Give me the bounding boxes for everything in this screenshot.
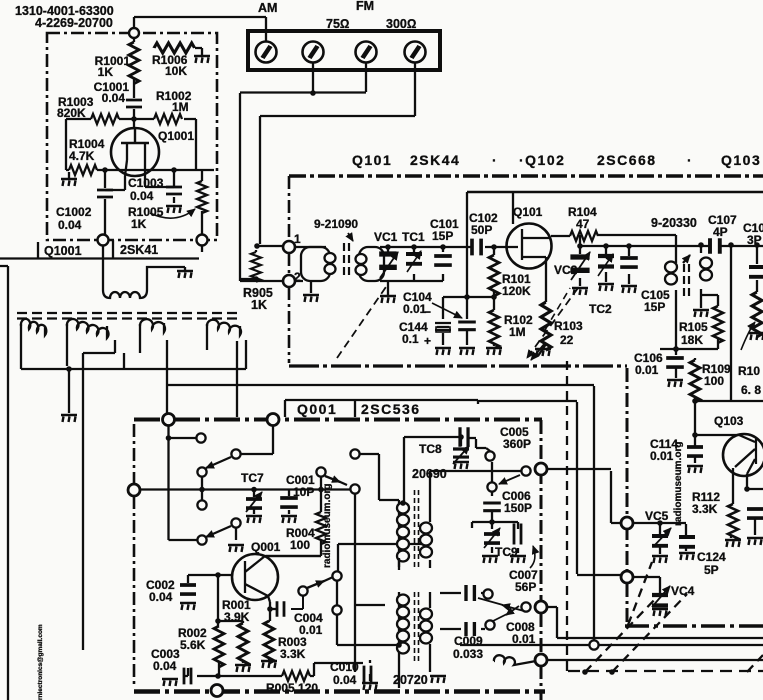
svg-text:47: 47 bbox=[576, 217, 590, 231]
svg-text:TC1: TC1 bbox=[402, 230, 425, 244]
svg-text:120K: 120K bbox=[502, 284, 531, 298]
svg-text:4P: 4P bbox=[713, 225, 728, 239]
svg-text:75Ω: 75Ω bbox=[326, 17, 350, 31]
svg-text:AM: AM bbox=[258, 1, 277, 15]
svg-text:0.04: 0.04 bbox=[130, 189, 154, 203]
svg-text:0.04: 0.04 bbox=[149, 590, 173, 604]
svg-text:1K: 1K bbox=[98, 65, 114, 79]
svg-text:Q103: Q103 bbox=[714, 414, 744, 428]
svg-text:0.04: 0.04 bbox=[333, 673, 357, 687]
svg-text:2SK41: 2SK41 bbox=[120, 243, 158, 257]
svg-text:TC9: TC9 bbox=[495, 545, 518, 559]
svg-text:1K: 1K bbox=[131, 217, 147, 231]
svg-text:1K: 1K bbox=[251, 298, 267, 312]
svg-text:·: · bbox=[492, 152, 498, 168]
svg-text:5.6K: 5.6K bbox=[180, 638, 206, 652]
svg-text:radiomuseum.org: radiomuseum.org bbox=[322, 484, 333, 568]
svg-text:100: 100 bbox=[290, 538, 310, 552]
svg-text:360P: 360P bbox=[503, 437, 531, 451]
svg-text:Q001: Q001 bbox=[297, 401, 337, 417]
svg-text:VC4: VC4 bbox=[671, 584, 695, 598]
svg-text:R103: R103 bbox=[554, 319, 583, 333]
svg-text:0.01: 0.01 bbox=[403, 302, 427, 316]
svg-text:C124: C124 bbox=[697, 550, 726, 564]
svg-text:R105: R105 bbox=[679, 320, 708, 334]
svg-text:0.01: 0.01 bbox=[650, 449, 674, 463]
svg-text:C1003: C1003 bbox=[128, 176, 164, 190]
svg-text:FM: FM bbox=[356, 0, 374, 13]
svg-text:4.7K: 4.7K bbox=[69, 149, 95, 163]
svg-text:0.033: 0.033 bbox=[453, 647, 483, 661]
svg-text:4-2269-20700: 4-2269-20700 bbox=[35, 16, 113, 30]
svg-text:VC5: VC5 bbox=[645, 509, 669, 523]
svg-text:1M: 1M bbox=[509, 325, 526, 339]
svg-text:TC7: TC7 bbox=[241, 471, 264, 485]
svg-text:50P: 50P bbox=[471, 223, 492, 237]
svg-text:0.04: 0.04 bbox=[153, 659, 177, 673]
svg-text:·Q102: ·Q102 bbox=[519, 152, 565, 168]
svg-text:2SK44: 2SK44 bbox=[410, 152, 460, 168]
svg-text:Q101: Q101 bbox=[352, 152, 392, 168]
svg-text:10K: 10K bbox=[165, 64, 187, 78]
svg-text:0.01: 0.01 bbox=[635, 363, 659, 377]
svg-text:9-21090: 9-21090 bbox=[314, 217, 358, 231]
svg-text:0.04: 0.04 bbox=[102, 91, 126, 105]
svg-text:0.1: 0.1 bbox=[402, 332, 419, 346]
svg-text:+: + bbox=[424, 334, 431, 348]
svg-text:rnlectronics@gmail.com: rnlectronics@gmail.com bbox=[37, 624, 44, 700]
svg-text:3.9K: 3.9K bbox=[224, 610, 250, 624]
svg-text:1M: 1M bbox=[172, 100, 189, 114]
svg-text:Q001: Q001 bbox=[251, 540, 281, 554]
svg-text:TC8: TC8 bbox=[419, 442, 442, 456]
svg-text:3P: 3P bbox=[747, 233, 762, 247]
svg-text:R10: R10 bbox=[738, 364, 760, 378]
svg-text:6. 8: 6. 8 bbox=[741, 383, 761, 397]
svg-text:15P: 15P bbox=[432, 229, 453, 243]
svg-text:2SC536: 2SC536 bbox=[361, 401, 421, 417]
svg-text:Q101: Q101 bbox=[513, 205, 543, 219]
svg-text:22: 22 bbox=[560, 333, 574, 347]
svg-text:100: 100 bbox=[704, 374, 724, 388]
svg-text:VC2: VC2 bbox=[554, 263, 578, 277]
svg-text:1: 1 bbox=[294, 232, 301, 246]
svg-text:10P: 10P bbox=[293, 485, 314, 499]
svg-text:2SC668: 2SC668 bbox=[597, 152, 657, 168]
svg-text:150P: 150P bbox=[504, 501, 532, 515]
svg-text:15P: 15P bbox=[644, 300, 665, 314]
svg-text:radiomuseum.org: radiomuseum.org bbox=[673, 442, 684, 526]
svg-text:0.04: 0.04 bbox=[58, 218, 82, 232]
svg-text:20720: 20720 bbox=[393, 673, 428, 687]
svg-text:C1002: C1002 bbox=[56, 205, 92, 219]
svg-text:3.3K: 3.3K bbox=[280, 647, 306, 661]
svg-text:Q1001: Q1001 bbox=[44, 244, 82, 258]
svg-text:20690: 20690 bbox=[412, 467, 447, 481]
svg-text:5P: 5P bbox=[704, 563, 719, 577]
svg-text:9-20330: 9-20330 bbox=[651, 216, 697, 230]
svg-text:3.3K: 3.3K bbox=[692, 502, 718, 516]
svg-text:TC2: TC2 bbox=[589, 302, 612, 316]
svg-text:56P: 56P bbox=[515, 580, 536, 594]
svg-text:VC1: VC1 bbox=[374, 230, 398, 244]
svg-text:820K: 820K bbox=[57, 106, 86, 120]
svg-text:Q1001: Q1001 bbox=[158, 129, 194, 143]
svg-text:·: · bbox=[687, 152, 693, 168]
svg-text:Q103: Q103 bbox=[721, 152, 761, 168]
svg-text:18K: 18K bbox=[681, 333, 703, 347]
svg-text:300Ω: 300Ω bbox=[386, 17, 416, 31]
svg-text:C010: C010 bbox=[330, 660, 359, 674]
svg-text:R005 120: R005 120 bbox=[266, 681, 318, 695]
